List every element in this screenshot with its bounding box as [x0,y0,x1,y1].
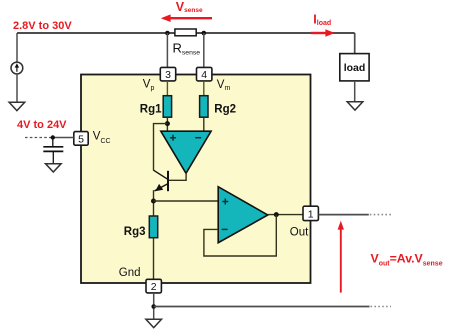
ground (pin 2) [146,319,162,327]
svg-text:Vsense: Vsense [176,0,203,14]
node: Vcc decoupling junction [51,135,55,139]
svg-text:Rsense: Rsense [173,41,201,57]
wire: pin 3 to Rg1 [166,81,168,96]
svg-text:load: load [344,62,366,74]
pin 1 [303,206,318,220]
node: output junction [274,212,279,217]
resistor Rg2 [200,96,208,118]
transistor Q1 [154,170,187,191]
node: base drive junction [165,121,170,126]
wire: left rail down to current source [16,33,18,62]
svg-text:4: 4 [201,69,207,81]
ground (left supply) [9,102,25,110]
load box [340,54,369,81]
pin 5 [74,132,88,146]
arrow Iload (red, pointing right, on wire) [311,29,335,37]
wire: feedback loop [204,215,276,256]
wire: Rg2 to op-amp - input [203,117,205,131]
svg-text:Rg3: Rg3 [124,226,146,238]
wire: pin 2 to ground [153,293,155,319]
svg-text:1: 1 [308,209,314,221]
wire: dotted continuation of output line [370,214,391,216]
emitter diagonal with arrow [155,184,168,191]
node: output reference junction [151,304,156,309]
op-amp U1b (output buffer) [218,187,268,243]
arrow Vsense (red, pointing left) [161,14,212,22]
ground (Vcc decoupling) [46,164,62,172]
wire: supply lead to pin 5 [53,137,74,139]
svg-text:3: 3 [165,69,171,81]
wire: load branch [354,33,356,54]
wire: junction left and down to transistor [154,124,168,171]
node: Vm tap junction [202,31,207,36]
resistor Rg1 [163,96,171,118]
svg-text:Out: Out [290,227,309,239]
svg-text:Gnd: Gnd [119,267,141,279]
wire: Rg3 to pin 2 [153,238,155,280]
node: output stage input junction [151,199,156,204]
pin 2 [146,279,161,293]
capacitor C1 [43,138,63,164]
node: Vp tap junction [165,31,170,36]
resistor Rsense [175,29,196,36]
wire: junction to buffer + input [154,200,219,202]
wire: emitter rail down through output node [153,190,155,216]
collector diagonal [154,170,168,179]
svg-text:4V to 24V: 4V to 24V [17,119,67,131]
wire: load to ground [354,81,356,102]
wire: bottom output reference line [154,306,370,308]
wire: dashed supply lead [25,137,53,139]
wire: dotted continuation of reference line [371,306,392,308]
op-amp U1a (input stage, pointing down) [161,131,211,173]
svg-text:5: 5 [78,133,84,145]
svg-text:2.8V to 30V: 2.8V to 30V [13,20,72,32]
base bar [167,171,169,191]
arrow Vout (red, pointing up) [338,221,344,293]
wire: pin 1 to right output line [318,214,368,216]
svg-text:Rg2: Rg2 [214,104,236,116]
pin 4 [197,67,212,81]
svg-text:Rg1: Rg1 [140,104,162,116]
svg-text:Iload: Iload [313,13,331,28]
IC body U1 (yellow box) [81,75,311,284]
wire: Rg1 to op-amp + input [166,117,168,131]
wire: pin 4 to Rg2 [203,81,205,96]
current source I1 [11,62,23,74]
wire: current source to ground [16,74,18,102]
ground (load) [347,102,363,110]
wire: Vp tap down to pin 3 [166,33,168,67]
svg-text:Vout=Av.Vsense: Vout=Av.Vsense [371,251,443,267]
wire: buffer output to pin 1 [268,214,303,216]
wire: Vm tap down to pin 4 [203,33,205,67]
pin 3 [160,67,175,81]
svg-text:2: 2 [151,281,157,293]
resistor Rg3 [149,216,157,238]
base lead from op-amp output [169,173,186,181]
wire: top supply rail [17,32,355,34]
